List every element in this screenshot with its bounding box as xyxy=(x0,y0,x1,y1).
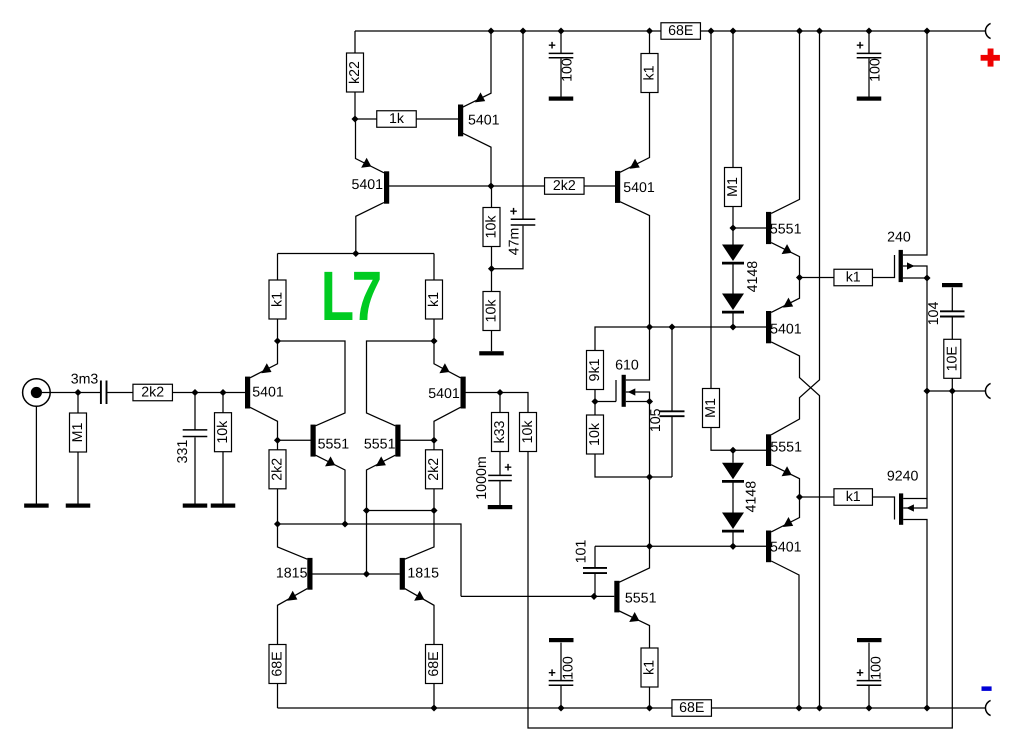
junction 610 gate node xyxy=(591,398,598,405)
ground above 100 bottom-left xyxy=(549,638,574,642)
svg-text:240: 240 xyxy=(887,229,911,245)
svg-text:1000m: 1000m xyxy=(474,456,490,499)
junction left k1 node xyxy=(274,337,281,344)
wire 68E right to rail xyxy=(433,684,435,709)
ground below 1000m xyxy=(488,505,513,509)
resistor k1 VAS xyxy=(641,54,658,93)
wire 240 bulk line xyxy=(903,266,927,278)
arrow 1815-left emitter xyxy=(287,591,297,601)
wire 5551-left emitter down xyxy=(316,455,346,524)
connector -V terminal xyxy=(985,700,990,715)
junction -rail 100BL xyxy=(557,704,564,711)
arrow driver upper 5401 emitter xyxy=(783,298,793,308)
svg-text:5401: 5401 xyxy=(468,113,500,129)
svg-text:10k: 10k xyxy=(484,299,500,323)
transistor VAS 5401 xyxy=(615,171,620,203)
wire 610 source down xyxy=(649,402,651,478)
arrow driver upper 5551 emitter xyxy=(782,244,792,254)
junction tail rail node xyxy=(352,250,359,257)
arrow Q2 emitter xyxy=(361,158,371,168)
wire 10k-610 bottom to source line xyxy=(595,454,672,477)
svg-text:M1: M1 xyxy=(70,423,86,443)
junction output node xyxy=(923,387,930,394)
ground input connector xyxy=(24,504,49,508)
junction gate node 240 xyxy=(796,274,803,281)
capacitor 3m3 xyxy=(100,381,102,405)
transistor driver upper 5401 xyxy=(766,311,771,343)
junction lower diode node xyxy=(729,543,736,550)
junction +rail crossover xyxy=(816,27,823,34)
wire input-right base to feedback node xyxy=(466,393,529,413)
svg-text:5551: 5551 xyxy=(318,437,350,453)
wire feedback 5551 collector xyxy=(619,546,649,582)
resistor k1 gate 240 xyxy=(834,269,873,286)
wire 100 top-right to ground xyxy=(868,59,870,97)
wire k1 left top stub xyxy=(277,254,279,281)
junction +rail 240 drain xyxy=(923,27,930,34)
wire 5401 lower emitter from gate node xyxy=(771,497,799,532)
junction gate node 9240 xyxy=(796,493,803,500)
wire input to 3m3 xyxy=(42,392,100,394)
wire 610 bulk line xyxy=(626,392,650,402)
transistor Q1 5401 (top current source) xyxy=(458,105,463,137)
wire 10k-1 bottom stub xyxy=(491,247,493,269)
wire k22 bottom to 1k node xyxy=(354,92,356,119)
wire 10k-2 top stub xyxy=(491,269,493,292)
diode 4148 upper second xyxy=(722,294,744,311)
svg-text:+: + xyxy=(504,460,512,475)
junction -rail 5401 collector xyxy=(795,704,802,711)
resistor 68E left xyxy=(269,645,286,684)
svg-text:610: 610 xyxy=(615,358,639,374)
arrow feedback 5551 emitter xyxy=(629,612,639,622)
svg-text:2k2: 2k2 xyxy=(426,458,442,481)
wire 1815-left emitter xyxy=(278,589,308,645)
svg-text:+: + xyxy=(856,38,864,53)
wire 5551 upper collector to +rail xyxy=(771,31,799,213)
wire 100 bottom-left to -rail xyxy=(560,686,562,708)
wire -V bottom rail xyxy=(278,707,986,709)
wire ground to 100 bottom-left xyxy=(560,643,562,680)
ground below 100 top-left xyxy=(549,97,574,101)
wire 5551 lower emitter to gate node xyxy=(771,465,799,497)
wire 240 source line xyxy=(903,277,927,279)
arrow VAS emitter xyxy=(630,159,640,169)
resistor k1 right tail xyxy=(426,280,443,319)
resistor 9k1 xyxy=(587,351,604,390)
wire k1 feedback to -rail xyxy=(649,687,651,708)
resistor 10k at 610 xyxy=(587,415,604,454)
junction +rail Q1 xyxy=(487,27,494,34)
wire 1815-right collector xyxy=(405,511,434,560)
svg-text:1815: 1815 xyxy=(407,565,439,581)
wire bias line y=327 to 9k1 xyxy=(595,327,766,351)
svg-text:k1: k1 xyxy=(270,292,286,307)
arrow 5551-left emitter xyxy=(325,456,335,466)
junction 10k input node xyxy=(219,389,226,396)
transistor driver lower 5401 xyxy=(766,531,771,563)
svg-text:k22: k22 xyxy=(347,61,363,84)
arrow Q1 emitter xyxy=(475,92,485,102)
resistor M1 lower xyxy=(703,389,720,428)
svg-text:10k: 10k xyxy=(520,420,536,444)
junction lower bias node xyxy=(729,447,736,454)
mosfet 610 xyxy=(615,380,617,402)
wire 10k-1 top stub xyxy=(491,186,493,208)
wire input-right collector to node B xyxy=(434,407,461,440)
resistor 1k xyxy=(377,111,417,128)
svg-text:M1: M1 xyxy=(725,177,741,197)
wire 5551-right emitter down to 1815 bases xyxy=(367,455,396,574)
wire 47m bottom to 10k node xyxy=(492,226,524,269)
wire output node to connector xyxy=(927,390,985,392)
svg-text:9240: 9240 xyxy=(887,468,919,484)
svg-text:4148: 4148 xyxy=(744,481,760,513)
junction bias lower node xyxy=(729,323,736,330)
svg-text:5401: 5401 xyxy=(770,321,802,337)
wire 5551-right collector up to k1 node xyxy=(367,341,435,426)
junction VAS collector node xyxy=(646,323,653,330)
mosfet 9240 xyxy=(899,493,903,524)
wire 10k-2 to ground xyxy=(491,331,493,352)
wire driver bias line y=546 xyxy=(595,545,766,547)
wire k1 tail rail y=253 xyxy=(278,253,435,255)
junction right k1 node xyxy=(430,337,437,344)
wire 2k2 left top stub xyxy=(277,440,279,450)
junction k22/1k node xyxy=(351,115,358,122)
wire k22 top stub xyxy=(354,31,356,53)
wire between lower diodes xyxy=(732,482,734,513)
capacitor 105 xyxy=(671,327,673,411)
wire +rail crossover to 5551 lower collector xyxy=(771,31,819,435)
transistor cascode left 5551 xyxy=(311,425,316,457)
junction +rail 100TL xyxy=(557,27,564,34)
svg-text:10k: 10k xyxy=(215,420,231,444)
wire VAS collector down xyxy=(620,202,650,327)
wire k1 right top stub xyxy=(433,254,435,281)
junction driver bias node xyxy=(646,543,653,550)
ground below 10k input xyxy=(211,504,236,508)
junction +rail 5551 collector xyxy=(796,27,803,34)
wire 68E left to rail xyxy=(277,684,279,709)
junction feedback base node xyxy=(590,593,597,600)
junction 610 source node xyxy=(646,398,653,405)
resistor k1 gate 9240 xyxy=(834,489,873,506)
wire 2k2 VAS to base xyxy=(584,185,615,187)
svg-text:k1: k1 xyxy=(426,292,442,307)
junction upper bias node xyxy=(729,224,736,231)
wire 9240 source line from output xyxy=(903,391,927,499)
wire Q2 emitter from 1k node xyxy=(356,119,385,173)
connector input RCA xyxy=(23,379,51,407)
wire k1 left bottom stub xyxy=(277,319,279,341)
svg-text:k1: k1 xyxy=(642,660,658,675)
svg-text:k1: k1 xyxy=(642,65,658,80)
wire 10k-610 top stub xyxy=(594,402,596,416)
wire upper bias node to 5551 base xyxy=(733,227,766,229)
transistor feedback 5551 xyxy=(614,581,619,613)
svg-text:104: 104 xyxy=(926,302,942,326)
junction input/M1 node xyxy=(74,389,81,396)
wire feedback 5551 emitter xyxy=(619,611,649,648)
junction -rail crossover xyxy=(816,704,823,711)
wire Q2 base line to VAS xyxy=(389,185,545,187)
resistor k22 xyxy=(347,53,364,92)
wire 5551 upper emitter to gate node xyxy=(771,243,799,278)
resistor k1 feedback xyxy=(641,648,658,687)
svg-text:1k: 1k xyxy=(389,111,405,127)
label +V red plus xyxy=(981,55,1000,61)
junction y510 right xyxy=(430,507,437,514)
svg-text:4148: 4148 xyxy=(745,261,761,293)
wire 1000m to ground xyxy=(499,481,501,505)
resistor 10k input xyxy=(215,413,232,452)
svg-text:1815: 1815 xyxy=(276,565,308,581)
transistor cascode right 5551 xyxy=(395,425,400,457)
capacitor 104 xyxy=(940,310,965,312)
svg-text:47m: 47m xyxy=(507,228,523,256)
resistor 2k2 left xyxy=(269,450,286,489)
wire k1 to 9240 gate xyxy=(873,497,895,520)
svg-text:5401: 5401 xyxy=(352,177,384,193)
capacitor 101 xyxy=(594,546,596,567)
wire 2k2 left bottom stub xyxy=(277,489,279,524)
svg-text:68E: 68E xyxy=(679,700,704,716)
wire 5401 upper collector crossover to -rail xyxy=(771,342,819,708)
wire 2k2 to input base xyxy=(173,392,246,394)
junction y524 left xyxy=(274,520,281,527)
wire lower diode chain to y=546 line xyxy=(732,532,734,547)
svg-text:k33: k33 xyxy=(492,420,508,443)
svg-text:100: 100 xyxy=(868,656,884,680)
wire 240 drain to +rail xyxy=(903,31,927,255)
wire 1k left stub xyxy=(355,118,377,120)
svg-text:10E: 10E xyxy=(944,346,960,371)
svg-text:2k2: 2k2 xyxy=(270,458,286,481)
arrow 1815-right emitter xyxy=(414,591,424,601)
transistor Q2 5401 (pre-driver) xyxy=(384,171,389,203)
junction -rail 9240 drain xyxy=(923,704,930,711)
wire 100 top-left to ground xyxy=(560,59,562,97)
wire M1 input top stub xyxy=(77,393,79,414)
wire 100 bottom-right to -rail xyxy=(868,686,870,708)
ground bar above 104 xyxy=(942,283,963,287)
capacitor 47m electrolytic xyxy=(511,218,536,220)
wire source node down to y=546 line xyxy=(649,477,651,546)
svg-text:+: + xyxy=(510,204,518,219)
junction +rail 100TR xyxy=(865,27,872,34)
junction y524 mid xyxy=(341,520,348,527)
wire 1815 base line xyxy=(312,573,399,575)
wire k33 top stub xyxy=(499,393,501,413)
svg-text:5401: 5401 xyxy=(770,540,802,556)
wire k1 right bottom stub xyxy=(433,319,435,341)
wire Q1 collector xyxy=(463,133,491,186)
resistor 2k2 input xyxy=(133,384,173,401)
ground below 331 xyxy=(183,504,208,508)
svg-text:101: 101 xyxy=(574,540,590,564)
arrow driver lower 5401 emitter xyxy=(783,517,793,527)
junction 240 source node xyxy=(923,274,930,281)
ground below 10k divider xyxy=(479,351,504,355)
svg-text:10k: 10k xyxy=(484,215,500,239)
junction 610 source lower node xyxy=(646,473,653,480)
wire gate node to k1 240 xyxy=(800,277,835,279)
wire 1815-right emitter xyxy=(405,589,434,645)
arrow driver lower 5551 emitter xyxy=(782,466,792,476)
svg-text:2k2: 2k2 xyxy=(141,385,164,401)
junction node B xyxy=(430,437,437,444)
svg-text:+: + xyxy=(548,665,556,680)
junction +rail M1 upper xyxy=(729,27,736,34)
svg-text:5401: 5401 xyxy=(428,386,460,402)
wire M1 upper to bias node xyxy=(732,207,734,229)
resistor 10E zobel xyxy=(944,339,961,378)
wire 100uF top-left stub xyxy=(560,31,562,53)
transistor 1815 left xyxy=(307,558,312,590)
wire M1 lower to lower bias node xyxy=(711,428,766,451)
svg-text:5551: 5551 xyxy=(770,221,802,237)
svg-text:+: + xyxy=(548,38,556,53)
wire input connector ground xyxy=(35,407,37,504)
wire k1 to 240 gate xyxy=(873,255,895,278)
wire node line y=524 to feedback transistor base xyxy=(278,524,462,596)
transistor driver upper 5551 xyxy=(766,212,771,244)
capacitor 1000m electrolytic xyxy=(488,474,512,476)
transistor 1815 right xyxy=(400,558,405,590)
svg-text:331: 331 xyxy=(175,440,191,464)
wire 1k to Q1 base xyxy=(416,118,458,120)
junction Q1 collector node xyxy=(487,182,494,189)
wire k1 VAS to emitter xyxy=(620,93,650,173)
svg-text:3m3: 3m3 xyxy=(71,372,99,388)
transistor input right 5401 xyxy=(461,377,466,409)
wire lower diode top stub xyxy=(732,450,734,463)
ground below 100 top-right xyxy=(857,97,882,101)
wire k33 to 1000m xyxy=(499,452,501,475)
wire between upper diodes xyxy=(732,264,734,294)
ground below M1 input xyxy=(66,504,91,508)
svg-text:105: 105 xyxy=(648,408,664,432)
svg-text:k1: k1 xyxy=(846,270,861,286)
diode 4148 upper first xyxy=(722,245,744,262)
mosfet 240 xyxy=(899,250,903,282)
wire 105 bottom to source line xyxy=(671,417,673,477)
arrow input-left emitter xyxy=(261,363,271,373)
svg-text:5551: 5551 xyxy=(770,440,802,456)
arrow 240 bulk xyxy=(907,262,915,269)
junction k33 node xyxy=(496,389,503,396)
capacitor 100 top-left electrolytic xyxy=(549,52,574,54)
svg-text:L7: L7 xyxy=(321,257,380,335)
junction +rail 47m xyxy=(519,27,526,34)
resistor 10k lower xyxy=(483,292,500,331)
wire 47m cap top from +rail xyxy=(522,31,524,219)
resistor k33 feedback xyxy=(492,413,509,452)
svg-text:5401: 5401 xyxy=(623,180,655,196)
svg-text:5551: 5551 xyxy=(364,437,396,453)
wire 10E to output node xyxy=(951,378,953,391)
svg-text:68E: 68E xyxy=(270,651,286,676)
wire diode chain to y=327 line xyxy=(732,313,734,328)
wire 5551-left collector up to k1 node xyxy=(278,341,346,426)
svg-text:100: 100 xyxy=(560,58,576,82)
wire 101 bottom to feedback base line xyxy=(594,574,596,597)
resistor M1 input xyxy=(70,413,87,452)
arrow input-right emitter xyxy=(439,363,449,373)
wire gate node to k1 9240 xyxy=(800,496,835,498)
wire input-right emitter xyxy=(434,341,461,378)
wire 331 to ground xyxy=(194,437,196,503)
junction 105 top node xyxy=(668,323,675,330)
junction -rail 68E right xyxy=(430,704,437,711)
wire node line y=510.5 xyxy=(367,510,435,512)
wire input-left emitter xyxy=(250,341,278,378)
wire 610 source line xyxy=(626,401,650,403)
svg-text:9k1: 9k1 xyxy=(587,358,603,381)
transistor driver lower 5551 xyxy=(766,434,771,466)
ground above 100 bottom-right xyxy=(857,638,882,642)
resistor 10k upper xyxy=(483,208,500,247)
wire input-left collector to node A xyxy=(250,407,278,440)
wire 10k input top stub xyxy=(222,393,224,413)
wire feedback base line xyxy=(461,595,614,597)
wire 5551-right base xyxy=(400,439,434,441)
wire 2k2 right top stub xyxy=(433,440,435,450)
wire 9240 bulk line xyxy=(903,499,927,509)
wire Q2 collector to k1 pair node xyxy=(356,203,384,254)
resistor 2k2 VAS xyxy=(545,178,585,195)
wire k1 VAS top stub xyxy=(649,31,651,54)
wire 100uF top-right stub xyxy=(868,31,870,53)
junction -rail 100BR xyxy=(865,704,872,711)
wire M1 input to ground xyxy=(77,452,79,504)
junction node A xyxy=(274,437,281,444)
wire bar to 104 xyxy=(951,288,953,311)
arrow 9240 bulk xyxy=(906,504,914,511)
resistor 10k feedback xyxy=(520,413,537,452)
junction 1815 base node xyxy=(363,570,370,577)
svg-text:M1: M1 xyxy=(703,398,719,418)
label -V blue minus xyxy=(982,686,992,691)
connector +V terminal xyxy=(985,23,990,38)
wire M1 lower from +rail xyxy=(710,31,712,389)
capacitor 100 bottom-right electrolytic xyxy=(857,680,882,682)
capacitor 331 xyxy=(194,393,196,430)
wire 9k1 to gate node xyxy=(594,390,596,402)
svg-text:k1: k1 xyxy=(846,489,861,505)
junction 10k divider node xyxy=(488,265,495,272)
resistor k1 left tail xyxy=(269,280,286,319)
svg-text:2k2: 2k2 xyxy=(553,178,576,194)
resistor 68E right xyxy=(426,645,443,684)
wire Q1 emitter to +rail xyxy=(463,31,491,107)
wire gate node to 610 gate xyxy=(595,401,616,403)
wire ground to 100 bottom-right xyxy=(868,643,870,680)
junction +rail M1 lower xyxy=(707,27,714,34)
svg-text:100: 100 xyxy=(868,58,884,82)
wire 9240 drain to -rail xyxy=(903,520,927,709)
diode 4148 lower second xyxy=(722,513,744,530)
wire +V top rail xyxy=(355,30,985,32)
resistor 2k2 right xyxy=(426,450,443,489)
wire 10k input to ground xyxy=(222,452,224,504)
wire feedback 10k down to output line xyxy=(528,391,952,728)
wire diode top stub xyxy=(732,228,734,245)
junction +rail k1 VAS xyxy=(646,27,653,34)
resistor 68E top rail xyxy=(661,23,701,40)
wire 5401 lower collector to -rail xyxy=(771,561,799,708)
